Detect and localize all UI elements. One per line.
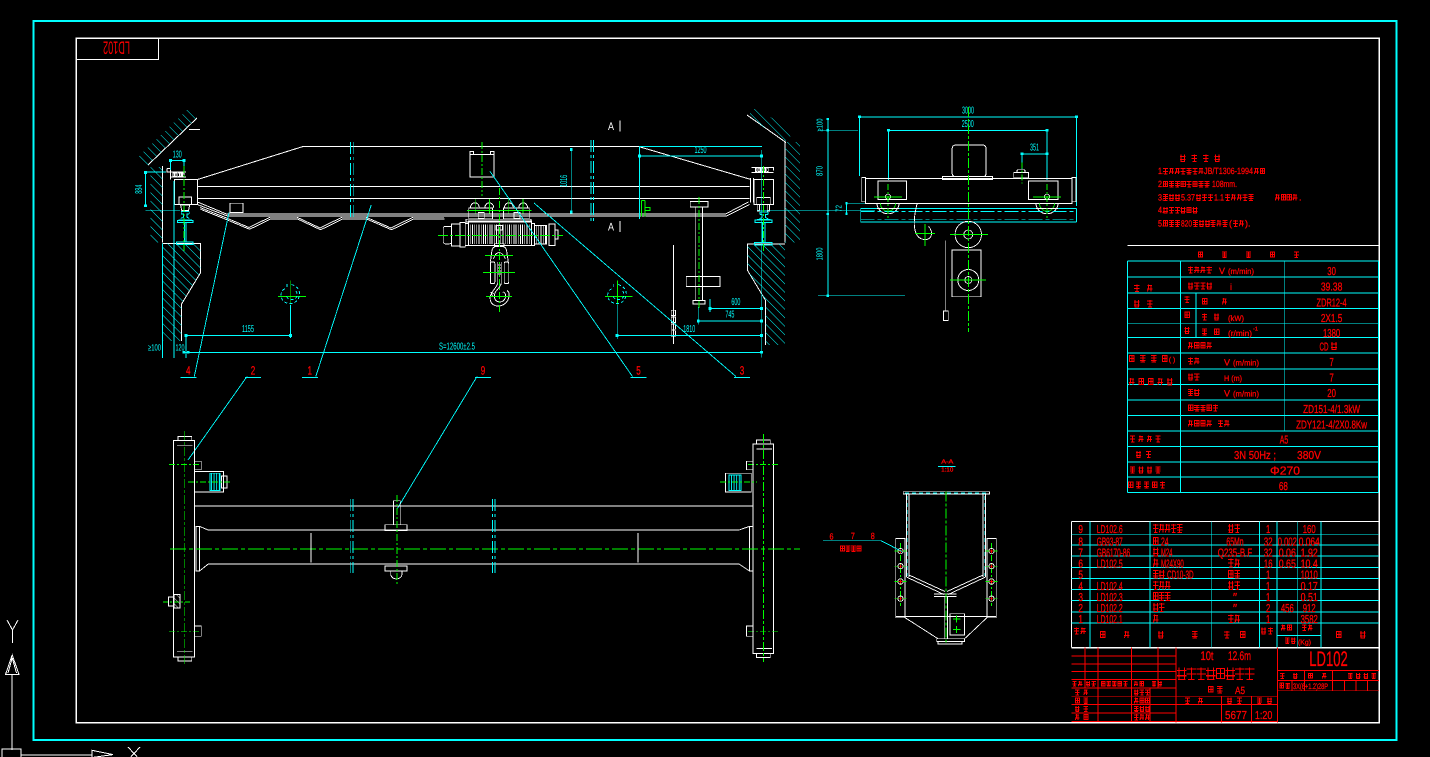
dimension 1155 [186, 335, 291, 337]
svg-text:Q235-B.F: Q235-B.F [1218, 547, 1252, 559]
hoist drum body [468, 221, 531, 245]
svg-text:7: 7 [1329, 357, 1333, 369]
right wall hatch band [785, 142, 800, 243]
phantom hook left (cyan dashed) [290, 281, 292, 305]
conductor bracket top flange [690, 201, 708, 207]
hoist motor fan ribs [534, 226, 546, 244]
svg-text:1: 1 [1078, 614, 1083, 626]
svg-text:2X1.5: 2X1.5 [1321, 313, 1343, 325]
plan motor right [726, 473, 752, 492]
wire rope loop [914, 204, 931, 240]
svg-text:600: 600 [731, 297, 740, 308]
svg-text:ZD151-4/1.3kW: ZD151-4/1.3kW [1303, 404, 1360, 416]
hoist drum left rim [465, 223, 468, 245]
svg-text:7: 7 [851, 531, 855, 541]
svg-text:(m/min): (m/min) [1233, 358, 1259, 367]
svg-text:1810: 1810 [683, 324, 695, 335]
parameter table grid [1128, 260, 1379, 262]
left runway rail (cyan) [179, 211, 192, 219]
plan bolt detail left [169, 597, 174, 606]
svg-text:LD102: LD102 [1309, 648, 1347, 671]
BOM header text (red) [1074, 628, 1086, 635]
svg-text:S=12600±2.5: S=12600±2.5 [439, 341, 475, 352]
hook swivel yoke [491, 247, 509, 262]
svg-text:6: 6 [1078, 558, 1083, 570]
UCS Y arrowhead [6, 655, 20, 675]
plan girder end plates [196, 526, 200, 571]
svg-text:5.37: 5.37 [1181, 192, 1195, 202]
plan girder flange lines [208, 529, 739, 531]
UCS origin box [2, 749, 21, 757]
extension lines wall left [161, 244, 163, 358]
end view dimension 3000 [860, 116, 1077, 118]
hoist wheel centerlines green [474, 199, 476, 214]
top chord extension cyan [639, 146, 762, 148]
svg-text:3N 50Hz ;: 3N 50Hz ; [1234, 450, 1276, 462]
svg-text:5677: 5677 [1225, 710, 1247, 722]
phantom hook right (cyan dashed) [616, 281, 618, 305]
svg-text:CD: CD [1320, 342, 1329, 354]
svg-text:CD10-3D: CD10-3D [1167, 570, 1194, 582]
main girder horizontal lines [197, 185, 749, 187]
dimension S=12600 +-2.5 span line [184, 351, 762, 353]
conductor bracket cross arm [686, 277, 720, 287]
svg-text:8: 8 [871, 531, 875, 541]
svg-text:3582: 3582 [1301, 614, 1318, 626]
festoon cable zigzag [200, 208, 444, 229]
travel motor on girder [952, 145, 986, 177]
cable wire [672, 245, 674, 344]
title block right cells text [1280, 673, 1285, 679]
left rail pad with clips [167, 168, 171, 172]
title block main dividers [1175, 648, 1177, 723]
BOM grid cyan [1072, 533, 1380, 535]
dimension 884 [144, 173, 146, 206]
svg-text:130: 130 [173, 150, 182, 161]
end view left dimension stack [827, 119, 829, 296]
plan carriage centerline left green [184, 431, 186, 665]
plan girder centerline green [170, 548, 800, 550]
svg-text:108mm.: 108mm. [1212, 179, 1237, 189]
svg-text:LD102.1: LD102.1 [1097, 614, 1123, 626]
BOM outer frame white [1072, 521, 1380, 523]
svg-text:884: 884 [134, 184, 145, 193]
svg-text:1: 1 [1266, 524, 1270, 536]
plan left end carriage [174, 441, 195, 657]
title block right cells [1278, 669, 1379, 671]
left corbel hatch [162, 244, 200, 342]
svg-text:1800: 1800 [815, 248, 825, 261]
svg-text:.: . [1299, 192, 1302, 202]
dimension 1810 [617, 335, 762, 337]
plan stiffener marks [310, 533, 312, 563]
svg-text:39.38: 39.38 [1321, 282, 1343, 294]
conductor bracket foot [693, 300, 705, 304]
plan girder taper lines [200, 526, 209, 530]
svg-text:6: 6 [830, 532, 834, 542]
hoist centerline horizontals green [467, 210, 532, 212]
parameter table title (red) [1198, 252, 1299, 258]
cable connector segments [671, 310, 675, 315]
svg-text:3.: 3. [1158, 192, 1164, 202]
svg-text:A: A [608, 222, 615, 234]
plan section cut lines A-A [349, 499, 351, 573]
rail clamp green [642, 201, 651, 217]
section bolts right [991, 543, 993, 606]
section bottom beam [896, 615, 996, 617]
svg-text:745: 745 [725, 310, 734, 321]
svg-text:≥100: ≥100 [815, 118, 825, 131]
section leader text (red) [840, 546, 861, 552]
carriage centerline right green [762, 166, 764, 253]
dimension 1016 [570, 150, 572, 213]
parameter table row labels mid column [1188, 267, 1212, 274]
svg-text:380V: 380V [1297, 450, 1321, 462]
svg-text:(kW): (kW) [1228, 314, 1244, 323]
technical notes title [1180, 155, 1220, 162]
rail top extension line right [757, 209, 875, 211]
end carriage girder (end view) [866, 179, 1072, 204]
UCS Y axis line [11, 675, 13, 751]
rail top extension line left [145, 209, 180, 211]
left end carriage (front view) [174, 180, 197, 205]
svg-text:3X(6+1.2)28P: 3X(6+1.2)28P [1293, 682, 1328, 691]
title block signature rows text [1075, 689, 1088, 695]
section center plate [934, 593, 957, 595]
svg-text:1: 1 [1266, 614, 1270, 626]
UCS axis icon Y label [7, 620, 18, 643]
hoist trolley wheel boxes [469, 208, 493, 219]
end view dimension 351 [1022, 153, 1047, 155]
svg-text:1.1: 1.1 [1214, 192, 1224, 202]
section bolts left [900, 543, 902, 606]
end view main centerline green [967, 107, 969, 332]
svg-text:870: 870 [815, 166, 825, 176]
svg-text:≥100: ≥100 [148, 343, 161, 353]
right rail pad with clips [752, 166, 774, 168]
svg-text:1380: 1380 [1323, 328, 1340, 340]
section side plate right [987, 539, 996, 618]
svg-text:3: 3 [740, 364, 745, 378]
svg-text:160: 160 [1303, 524, 1316, 536]
section V bottom plates [906, 577, 944, 595]
right wall ceiling line [747, 115, 786, 143]
UCS X axis line and arrow [21, 754, 92, 756]
left wall ceiling line [148, 118, 197, 165]
svg-text:M24X90: M24X90 [1161, 558, 1184, 570]
plan girder walkway edge line [194, 505, 753, 507]
plan right end carriage [753, 444, 774, 654]
left wall face [162, 166, 164, 243]
title stamp box LD102 top-left [76, 38, 159, 60]
svg-text:i: i [1230, 282, 1232, 292]
svg-text:LD102.5: LD102.5 [1097, 558, 1123, 570]
svg-text:9: 9 [481, 364, 486, 378]
svg-text:10.4: 10.4 [1301, 558, 1319, 570]
svg-text:A5: A5 [1280, 435, 1289, 447]
section cut line A-A left [350, 142, 352, 219]
svg-text:2: 2 [1078, 603, 1083, 615]
girder bottom flange taper right [726, 202, 748, 214]
svg-text:JB/T1306-1994: JB/T1306-1994 [1204, 166, 1253, 176]
right wall ceiling hatch [747, 107, 794, 142]
dimension 600 [710, 308, 762, 310]
crane hook [490, 284, 509, 306]
svg-text:(Kg): (Kg) [1298, 639, 1311, 647]
pendant control box [470, 155, 494, 178]
svg-text:0.65: 0.65 [1279, 558, 1296, 570]
right extension line [761, 150, 763, 357]
left wall hatch band [151, 167, 163, 243]
hoist centerline vertical green [481, 142, 483, 196]
svg-text:H (m): H (m) [1224, 374, 1242, 383]
wheel right (end view) [1036, 203, 1058, 214]
section clamp box [950, 614, 965, 635]
title block left revision grid [1072, 655, 1177, 657]
right corbel outline [748, 244, 786, 345]
svg-text:5: 5 [636, 364, 641, 378]
right crane wheel [757, 205, 759, 212]
dimension 130 [171, 160, 184, 162]
svg-text:V: V [1224, 389, 1230, 399]
parameter table top white line [1128, 245, 1380, 247]
svg-text:1016: 1016 [559, 175, 570, 187]
UCS X label [128, 747, 140, 757]
svg-text:Φ270: Φ270 [1270, 466, 1300, 478]
svg-text:(r/min): (r/min) [1228, 329, 1252, 338]
section side plate left [896, 539, 905, 618]
left crane wheel [181, 205, 190, 211]
svg-text:-1: -1 [1253, 327, 1258, 333]
girder bottom flange taper left [198, 202, 227, 214]
left wall ceiling hatch [138, 108, 198, 166]
right end carriage (front view) [754, 180, 774, 205]
svg-text:30: 30 [1327, 266, 1336, 278]
hoist left end bell [452, 224, 460, 246]
hoist drum right rim [531, 223, 534, 245]
title block material/qty/scale cells [1176, 695, 1278, 697]
wheel box left (end view) [878, 181, 906, 200]
section centerline green [945, 492, 947, 643]
svg-text:2500: 2500 [962, 119, 974, 130]
section webs [905, 494, 907, 577]
svg-text:(m/min): (m/min) [1228, 267, 1254, 276]
svg-text:2: 2 [251, 364, 256, 378]
section center stem [944, 597, 946, 639]
plan wheel crosshairs green [169, 464, 200, 466]
svg-text:A5: A5 [1235, 685, 1245, 697]
small junction box on girder [230, 203, 243, 212]
svg-text:912: 912 [1303, 603, 1316, 615]
svg-text:1155: 1155 [242, 324, 254, 335]
rail white segments under wheels [877, 207, 899, 209]
svg-text:LD102.2: LD102.2 [1097, 603, 1123, 615]
svg-text:20: 20 [1327, 388, 1336, 400]
svg-text:1:20: 1:20 [1255, 710, 1273, 722]
hook pulley (end view) [955, 221, 981, 247]
svg-text:2: 2 [1266, 603, 1270, 615]
svg-text:″: ″ [1233, 603, 1237, 615]
hook block (end view) [952, 250, 981, 297]
buffer on girder [1014, 173, 1029, 178]
hoist drum rope hatch [470, 225, 529, 245]
svg-text:).: ). [1245, 218, 1251, 228]
hook block cheek plates [490, 262, 495, 284]
plan side lugs [194, 461, 201, 470]
plan jack support [394, 501, 401, 525]
svg-text:ZDY121-4/2X0.8Kw: ZDY121-4/2X0.8Kw [1296, 420, 1367, 432]
conductor bracket bar [695, 207, 697, 300]
hoist drum rope guide tab [496, 226, 503, 231]
svg-text:(: ( [1229, 218, 1232, 228]
svg-text:456: 456 [1281, 603, 1294, 615]
svg-text:( ): ( ) [1169, 356, 1176, 364]
svg-text:A: A [608, 121, 615, 133]
svg-text:820: 820 [1181, 218, 1192, 228]
hoist suspension bar [466, 219, 531, 222]
svg-text:16: 16 [1264, 558, 1273, 570]
svg-text:72: 72 [834, 205, 844, 212]
svg-text:4: 4 [186, 364, 191, 378]
svg-text:351: 351 [1030, 143, 1039, 154]
plan motor left [194, 472, 223, 493]
svg-text:1:10: 1:10 [941, 467, 954, 474]
svg-text:4.: 4. [1158, 205, 1164, 215]
section cut line A-A right [590, 140, 592, 221]
dimension 1250 [640, 155, 762, 157]
svg-text:LD102.6: LD102.6 [1097, 524, 1123, 536]
dimension 745 [698, 320, 761, 322]
plan carriage centerline right green [762, 434, 764, 662]
hoist motor end cap [549, 224, 555, 245]
end view dimension 72 [846, 203, 848, 214]
right wall face [784, 142, 786, 243]
wheel left (end view) [877, 203, 899, 214]
left corbel outline [162, 244, 200, 342]
svg-text:7: 7 [1329, 373, 1333, 385]
conductor bracket centerline green [698, 197, 700, 310]
svg-text:1: 1 [308, 364, 313, 378]
section top flange [903, 492, 989, 494]
svg-text:V: V [1224, 357, 1230, 367]
svg-text:9: 9 [1078, 524, 1083, 536]
svg-text:12.6m: 12.6m [1228, 649, 1251, 663]
parameter table left labels (red) [1134, 285, 1153, 292]
runway beam rail (end view, cyan) [861, 207, 1077, 209]
svg-text:V: V [1219, 266, 1225, 276]
right runway rail (cyan) [757, 212, 771, 220]
carriage centerline left green [183, 166, 185, 251]
wheel box right (end view) [1029, 181, 1059, 200]
title block revision row text [1073, 681, 1083, 686]
svg-text:A-A: A-A [941, 459, 953, 466]
svg-text:68: 68 [1279, 481, 1288, 493]
right corbel hatch [748, 244, 786, 345]
end view dimension 2500 [888, 129, 1047, 131]
svg-text:LD102: LD102 [103, 38, 130, 58]
hoist trolley wheels [470, 203, 527, 208]
rope loop crosshair green [915, 232, 935, 234]
main girder top chord [198, 147, 752, 180]
wheel centerlines green (end view) [887, 184, 889, 218]
pendant cable (end view) [945, 240, 947, 311]
svg-text:(m/min): (m/min) [1233, 390, 1259, 399]
parameter table row labels bottom (red) [1130, 435, 1161, 442]
svg-text:ZDR12-4: ZDR12-4 [1317, 297, 1347, 309]
svg-text:10t: 10t [1201, 649, 1214, 663]
